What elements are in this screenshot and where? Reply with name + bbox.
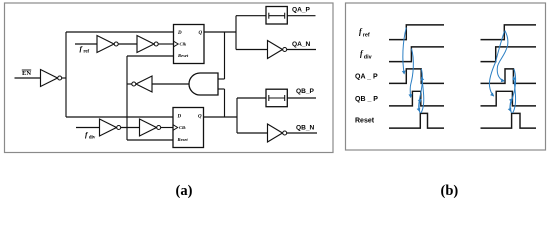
arrow QA_P fall to Reset rise (group2) — [510, 69, 516, 111]
svg-text:D: D — [177, 115, 182, 120]
caption (a) — [176, 183, 193, 199]
inverter U2 (fref chain 1) — [97, 36, 118, 53]
input label fref — [80, 44, 90, 55]
svg-text:Reset: Reset — [355, 118, 375, 125]
output label QB_N — [296, 125, 315, 132]
inverter U8 (reset feedback, pointing left) — [132, 76, 152, 92]
svg-text:QB_N: QB_N — [296, 125, 315, 132]
arrow QA_P fall to Reset rise (group1) — [419, 69, 423, 111]
arrow Reset rise to QB_P fall (group2) — [510, 99, 512, 113]
inverter U5 (fdiv chain 1) — [100, 119, 121, 136]
svg-text:EN: EN — [22, 70, 31, 77]
output label QB_P — [296, 88, 315, 95]
waveform Reset group1 — [389, 113, 444, 128]
AND gate U9 (mirrored, inputs on right) — [189, 73, 225, 95]
wire AND output to U8 input — [152, 83, 189, 85]
panel (a) border frame — [5, 3, 334, 153]
signal label fdiv (timing) — [360, 49, 372, 60]
wire U1 output to EN net — [62, 77, 66, 79]
flip-flop U4 (FF1) — [174, 25, 205, 64]
signal label Reset (timing) — [355, 118, 375, 125]
wire FF2 Q output — [204, 116, 238, 118]
caption (b) — [441, 183, 459, 199]
delay element Z1 (QA_P) — [266, 7, 287, 25]
waveform fref group1 — [389, 25, 444, 40]
waveform QA_P group2 — [481, 69, 537, 84]
svg-text:QB_P: QB_P — [296, 88, 315, 95]
waveform QA_P group1 — [389, 69, 444, 84]
inverter U10 (QA_N) — [268, 41, 287, 59]
arrow Reset rise to QA_P fall (group2) — [513, 77, 516, 113]
wire QA node to AND input — [224, 32, 226, 79]
svg-text:ref: ref — [83, 50, 89, 55]
arrow Reset rise to QB_P fall (group1) — [419, 99, 421, 113]
inverter U11 (QB_N) — [268, 124, 287, 142]
waveform QB_P group2 — [481, 91, 537, 106]
wire QA_P output — [287, 15, 315, 17]
wire to QB_P delay — [237, 97, 266, 99]
waveform fref group2 — [481, 25, 537, 40]
svg-text:D: D — [177, 31, 182, 36]
output label QA_P — [292, 7, 311, 14]
svg-text:Clk: Clk — [179, 125, 186, 130]
node EN net vertical — [65, 32, 67, 117]
output label QA_N — [292, 41, 311, 48]
delay element Z2 (QB_P) — [266, 89, 287, 107]
arrow Reset rise to QA_P fall (group1) — [421, 77, 424, 113]
arrow fdiv rise to QB_P rise (group2) — [489, 32, 504, 97]
waveform fdiv group1 — [389, 47, 444, 62]
wire U3 to FF1 Clk — [158, 43, 173, 45]
wire fref input — [75, 43, 97, 45]
wire FF1 Reset — [127, 55, 174, 57]
input label fdiv — [85, 130, 96, 141]
signal label fref (timing) — [359, 27, 370, 38]
arrow fref rise to QA_P rise (group1) — [403, 28, 406, 74]
svg-text:QA_P: QA_P — [292, 7, 311, 14]
wire to QA_P delay — [236, 15, 266, 17]
waveform Reset group2 — [481, 113, 537, 128]
waveform fdiv group2 — [481, 47, 537, 62]
wire EN net to FF1 D — [66, 31, 174, 33]
svg-text:QA _ P: QA _ P — [355, 73, 378, 80]
wire to QA_N inverter — [236, 49, 268, 51]
inverter U3 (fref chain 2) — [137, 36, 158, 53]
svg-text:Reset: Reset — [178, 53, 189, 58]
svg-text:Clk: Clk — [180, 42, 187, 47]
svg-text:div: div — [89, 136, 96, 141]
wire QA_N output — [287, 49, 316, 51]
inverter U6 (fdiv chain 2) — [140, 119, 161, 136]
svg-text:QB _ P: QB _ P — [355, 96, 378, 103]
wire QB_P output — [287, 97, 316, 99]
wire U6 to FF2 Clk — [161, 127, 173, 129]
wire EN net to FF2 D — [66, 116, 173, 118]
signal label QB_P (timing) — [355, 96, 378, 103]
wire U8 output to Reset net — [127, 83, 132, 85]
arrow fref rise to QA_P rise (group2) — [497, 31, 508, 82]
svg-text:ref: ref — [363, 32, 370, 38]
svg-text:QA_N: QA_N — [292, 41, 311, 48]
wire EN input — [15, 77, 41, 79]
svg-text:Q: Q — [199, 31, 203, 36]
node Reset net vertical — [126, 56, 128, 140]
wire U2 to U3 — [118, 43, 137, 45]
svg-text:Reset: Reset — [178, 137, 189, 142]
node QA branch vertical — [235, 16, 237, 50]
wire to QB_N inverter — [237, 132, 268, 134]
svg-text:(a): (a) — [176, 183, 193, 199]
input label EN (active-low, overline) — [22, 70, 32, 77]
wire QB node to AND input — [224, 89, 226, 117]
inverter U1 (EN buffer) — [41, 70, 62, 87]
node QB branch vertical — [236, 98, 238, 133]
svg-text:Q: Q — [198, 115, 202, 120]
signal label QA_P (timing) — [355, 73, 378, 80]
wire QB_N output — [287, 132, 317, 134]
wire FF1 Q output — [204, 31, 236, 33]
svg-text:div: div — [364, 54, 372, 60]
waveform QB_P group1 — [389, 91, 444, 106]
wire FF2 Reset — [127, 139, 173, 141]
wire U5 to U6 — [121, 127, 140, 129]
flip-flop U7 (FF2) — [173, 108, 204, 148]
svg-text:(b): (b) — [441, 183, 459, 199]
wire fdiv input — [76, 127, 100, 129]
arrow fdiv rise to QB_P rise (group1) — [410, 49, 413, 98]
panel (b) border frame — [346, 3, 546, 150]
